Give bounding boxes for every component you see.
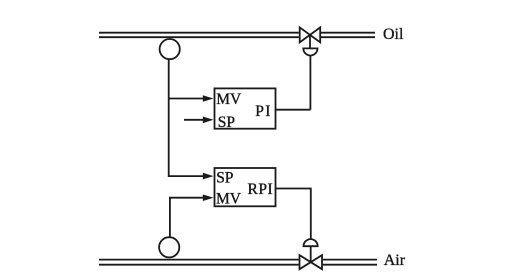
svg-text:Air: Air bbox=[384, 252, 406, 269]
svg-text:RPI: RPI bbox=[248, 181, 274, 198]
svg-text:SP: SP bbox=[216, 169, 233, 186]
svg-text:Oil: Oil bbox=[383, 26, 404, 43]
svg-text:MV: MV bbox=[216, 190, 242, 207]
svg-text:SP: SP bbox=[218, 114, 235, 131]
svg-text:MV: MV bbox=[216, 91, 242, 108]
svg-text:PI: PI bbox=[255, 103, 271, 120]
